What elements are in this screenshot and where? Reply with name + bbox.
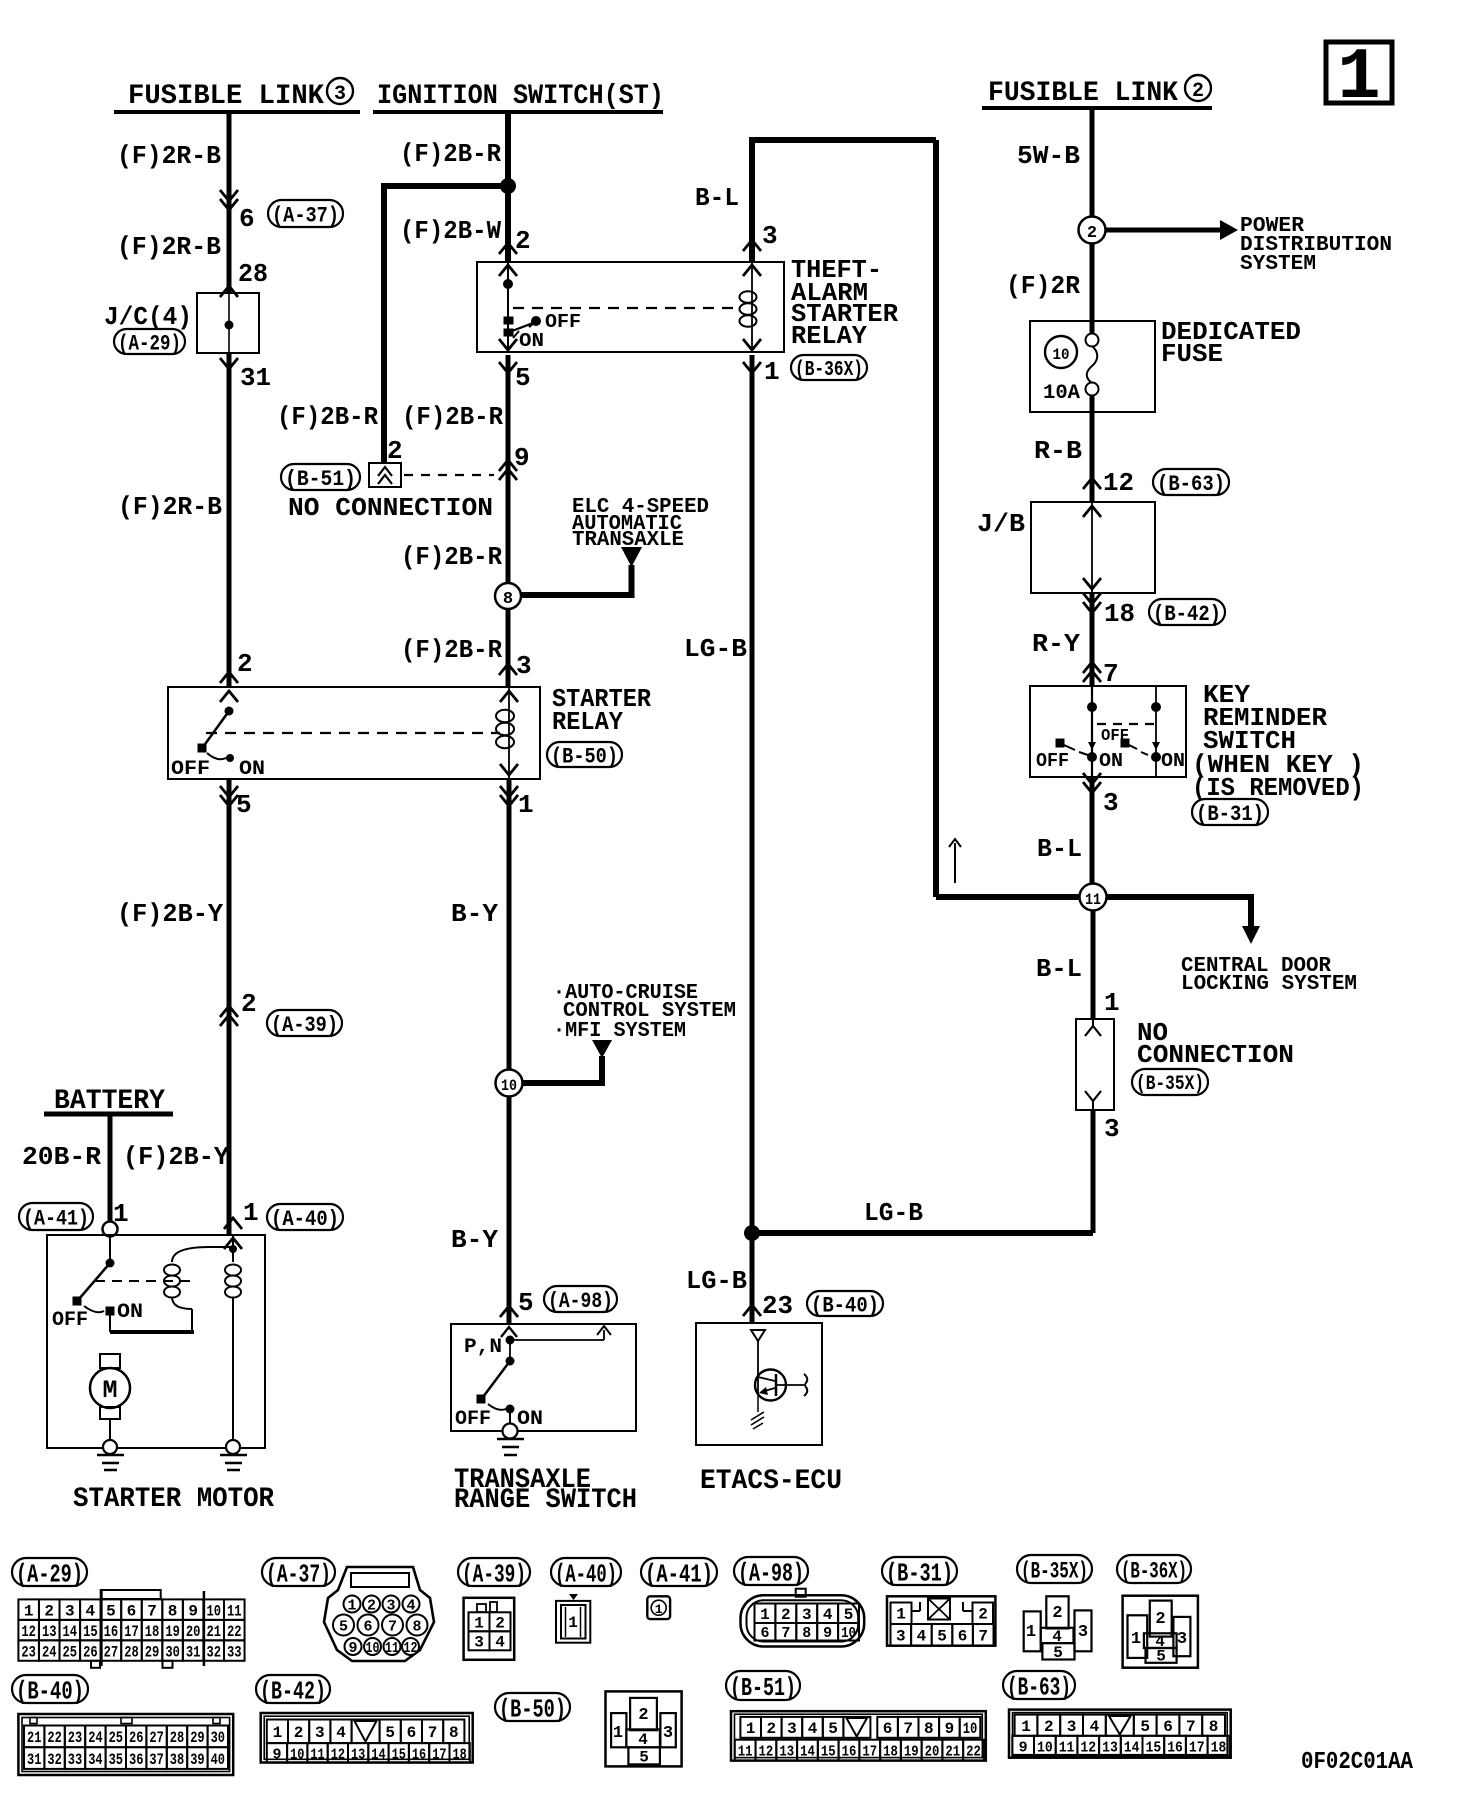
wire LG-B horizontal [752, 1230, 1093, 1236]
svg-text:1: 1 [746, 1720, 756, 1738]
svg-text:17: 17 [1189, 1739, 1205, 1756]
svg-text:(A-29): (A-29) [16, 1559, 83, 1589]
svg-text:25: 25 [63, 1643, 78, 1661]
svg-text:(B-50): (B-50) [551, 744, 618, 769]
svg-text:5: 5 [339, 1619, 348, 1636]
connector A-39 chevrons [220, 1006, 238, 1017]
solenoid top node dot [229, 1245, 237, 1253]
connector A-29 mounting tabs [100, 1591, 103, 1666]
svg-text:9: 9 [272, 1746, 281, 1763]
wire (F)2R [1090, 243, 1095, 334]
svg-text:LG-B: LG-B [864, 1198, 923, 1228]
svg-text:1: 1 [1026, 1623, 1036, 1642]
wire below B-35X [1091, 1110, 1096, 1233]
svg-text:R-B: R-B [1034, 436, 1082, 466]
junction block J/C(4) box [197, 293, 259, 353]
connector ref A-98 [544, 1286, 617, 1312]
contact small marks [504, 317, 513, 324]
switch arm tail [529, 321, 536, 327]
chevron pin 12 [1083, 478, 1101, 489]
svg-text:10: 10 [841, 1625, 856, 1642]
svg-text:12: 12 [404, 1640, 418, 1657]
svg-text:OFF: OFF [171, 758, 210, 781]
svg-text:15: 15 [83, 1623, 98, 1641]
switch arm theft [507, 323, 533, 333]
svg-text:2: 2 [1155, 1610, 1165, 1629]
node dot J/C(4) [225, 321, 234, 330]
svg-text:(B-63): (B-63) [1157, 472, 1225, 497]
svg-text:2: 2 [1044, 1718, 1054, 1736]
svg-text:1: 1 [613, 1724, 623, 1743]
theft relay dashed link [513, 307, 738, 309]
wire node11 horizontal left [936, 894, 1079, 900]
svg-text:1: 1 [568, 1614, 578, 1632]
svg-text:26: 26 [83, 1643, 98, 1661]
chevron inside transaxle box [501, 1327, 517, 1337]
ETACS input triangle [751, 1330, 765, 1341]
svg-text:(F)2R-B: (F)2R-B [118, 492, 222, 522]
junction node dot [500, 178, 516, 194]
wire B-L to node 11 [1090, 777, 1095, 884]
svg-text:25: 25 [109, 1729, 123, 1747]
svg-text:10: 10 [206, 1602, 221, 1620]
svg-text:36: 36 [129, 1751, 143, 1769]
svg-text:1: 1 [896, 1606, 906, 1624]
svg-text:ON: ON [239, 758, 265, 781]
svg-text:18: 18 [1104, 599, 1135, 629]
svg-text:5: 5 [828, 1720, 838, 1738]
ground symbol right [220, 1454, 247, 1457]
wire ignition vertical [505, 186, 511, 261]
motor switch feed [109, 1236, 111, 1263]
connector ref B-51 (pinout) [726, 1671, 800, 1700]
starter motor box [47, 1235, 265, 1448]
svg-text:B-L: B-L [1036, 954, 1082, 984]
chevron inside J/B top [1083, 506, 1101, 517]
svg-text:27: 27 [104, 1643, 119, 1661]
chevron below theft relay right [743, 362, 761, 373]
svg-text:4: 4 [86, 1602, 96, 1620]
wire long vertical to node 11 [933, 140, 939, 897]
svg-text:24: 24 [42, 1643, 57, 1661]
svg-text:7: 7 [978, 1628, 988, 1646]
relay dashed link [206, 732, 500, 734]
svg-text:35: 35 [109, 1751, 123, 1769]
arrow to power distribution [1106, 228, 1222, 233]
svg-text:(A-41): (A-41) [23, 1206, 89, 1231]
svg-text:39: 39 [190, 1751, 204, 1769]
arrow to ELC system [621, 547, 642, 567]
ground terminal left [103, 1440, 117, 1454]
ETACS transistor output [776, 1384, 806, 1386]
svg-text:LOCKING SYSTEM: LOCKING SYSTEM [1181, 973, 1357, 996]
svg-text:21: 21 [945, 1744, 960, 1761]
NC chevron top [1085, 1026, 1101, 1036]
svg-text:2: 2 [367, 1598, 376, 1615]
dedicated fuse box [1030, 321, 1155, 412]
svg-text:ETACS-ECU: ETACS-ECU [700, 1466, 842, 1497]
chevron into starter relay right [499, 664, 517, 675]
connector B-63 body [1009, 1710, 1231, 1758]
fuse element [1087, 346, 1098, 383]
connector ref B-50 [547, 742, 622, 767]
chevrons pin 3 [1083, 782, 1101, 793]
svg-text:34: 34 [88, 1751, 103, 1769]
wire B-Y vertical [507, 779, 512, 1070]
NC chevron bottom [1085, 1091, 1101, 1101]
connector ref B-35X (pinout) [1017, 1555, 1092, 1583]
switch tick [513, 331, 519, 338]
svg-text:3: 3 [896, 1628, 906, 1646]
switch pivot dot [506, 1357, 515, 1366]
svg-text:FUSE: FUSE [1161, 339, 1223, 369]
wire switch to motor [109, 1315, 111, 1332]
wire inside key switch [1091, 686, 1093, 777]
connector B-50 body [606, 1691, 682, 1766]
svg-text:31: 31 [240, 363, 271, 393]
svg-text:31: 31 [186, 1643, 201, 1661]
svg-text:37: 37 [149, 1751, 163, 1769]
svg-text:28: 28 [124, 1643, 139, 1661]
chevrons below relay left [220, 795, 238, 806]
switch throw arc [84, 1306, 104, 1312]
connector ref A-41 [19, 1203, 93, 1230]
connector ref B-42 (pinout) [256, 1675, 330, 1703]
connector B-40 row2 [24, 1747, 44, 1769]
svg-text:5: 5 [385, 1724, 395, 1742]
svg-text:12: 12 [1080, 1739, 1096, 1756]
svg-text:(F)2R-B: (F)2R-B [117, 141, 221, 171]
svg-text:10: 10 [1037, 1739, 1053, 1756]
svg-text:22: 22 [47, 1729, 61, 1747]
svg-text:30: 30 [211, 1729, 225, 1747]
svg-text:(F)2B-Y: (F)2B-Y [123, 1142, 229, 1172]
chevrons below relay right [500, 795, 518, 806]
svg-text:8: 8 [1209, 1718, 1219, 1736]
svg-text:B-Y: B-Y [451, 1225, 498, 1255]
svg-text:23: 23 [21, 1643, 36, 1661]
svg-text:1: 1 [518, 790, 534, 820]
arrow to central door locking [1242, 926, 1260, 944]
svg-text:3: 3 [762, 221, 778, 251]
svg-text:18: 18 [1211, 1739, 1227, 1756]
svg-text:NO CONNECTION: NO CONNECTION [288, 493, 493, 523]
wire ignition mid [506, 355, 511, 584]
chevron inside theft relay left [499, 265, 517, 276]
svg-text:(F)2R-B: (F)2R-B [117, 232, 221, 262]
connector A-37 pass-through chevrons [220, 199, 238, 210]
connector ref A-29 [114, 329, 185, 354]
svg-text:4: 4 [917, 1628, 927, 1646]
svg-text:8: 8 [449, 1724, 459, 1742]
svg-text:11: 11 [738, 1744, 753, 1761]
svg-text:2: 2 [387, 436, 403, 466]
switch arm left [1056, 739, 1064, 747]
svg-text:(B-31): (B-31) [1196, 802, 1264, 827]
svg-text:2: 2 [638, 1706, 648, 1725]
svg-text:12: 12 [331, 1746, 345, 1763]
svg-text:1: 1 [1131, 1630, 1141, 1649]
svg-text:12: 12 [759, 1744, 774, 1761]
chevron inside box A-40 [224, 1238, 242, 1249]
ETACS transistor base bar [775, 1374, 778, 1396]
chevrons pin 9 [499, 460, 517, 471]
svg-text:1: 1 [1104, 988, 1120, 1018]
switch throw arc [207, 753, 226, 759]
wire B-Y lower [507, 1096, 512, 1324]
chevron inside theft relay right bottom [743, 339, 761, 350]
arrow onto left contact [1088, 742, 1096, 750]
svg-text:(B-51): (B-51) [730, 1673, 796, 1703]
svg-text:5: 5 [1140, 1718, 1150, 1736]
svg-text:LG-B: LG-B [684, 634, 747, 664]
connector ref B-31 [1192, 799, 1268, 825]
connector ref A-37 [268, 200, 343, 227]
theft relay coil [740, 291, 757, 303]
svg-text:(A-98): (A-98) [738, 1558, 804, 1588]
svg-text:6: 6 [127, 1602, 137, 1620]
svg-text:13: 13 [42, 1623, 57, 1641]
svg-text:8: 8 [802, 1625, 811, 1642]
chevron into transaxle switch [500, 1306, 518, 1317]
svg-text:(F)2B-R: (F)2B-R [401, 542, 502, 572]
svg-text:6: 6 [407, 1724, 417, 1742]
connector ref A-37 (pinout) [262, 1558, 335, 1586]
wire R-B [1090, 395, 1095, 502]
connector ref A-39 [267, 1010, 342, 1036]
svg-text:2: 2 [241, 989, 257, 1019]
svg-text:21: 21 [27, 1729, 41, 1747]
svg-text:20B-R: 20B-R [22, 1142, 101, 1172]
svg-text:23: 23 [68, 1729, 82, 1747]
svg-text:BATTERY: BATTERY [54, 1086, 165, 1117]
svg-text:1: 1 [347, 1598, 356, 1615]
svg-text:11: 11 [310, 1746, 324, 1763]
svg-text:B-Y: B-Y [451, 899, 498, 929]
arrow onto right contact [1152, 742, 1160, 750]
connector ref B-40 (pinout) [12, 1675, 88, 1703]
wire node11 horizontal right [1107, 894, 1251, 900]
svg-text:7: 7 [147, 1602, 157, 1620]
connector A-37 pins [344, 1596, 361, 1613]
svg-text:10A: 10A [1043, 382, 1080, 405]
junction block J/B box [1031, 502, 1155, 593]
svg-text:6: 6 [958, 1628, 968, 1646]
chevron inside relay top-left [220, 691, 238, 702]
svg-text:RANGE SWITCH: RANGE SWITCH [454, 1485, 637, 1516]
svg-text:3: 3 [65, 1602, 75, 1620]
ETACS input wire [757, 1341, 759, 1393]
svg-text:14: 14 [63, 1623, 78, 1641]
svg-text:ON: ON [117, 1301, 143, 1324]
svg-text:ON: ON [519, 330, 544, 352]
chevron below theft relay left [499, 362, 517, 373]
switch arm dot [531, 316, 541, 326]
svg-text:(B-51): (B-51) [285, 467, 356, 492]
svg-text:4: 4 [336, 1724, 346, 1742]
svg-text:4: 4 [406, 1598, 415, 1615]
svg-text:15: 15 [392, 1746, 406, 1763]
svg-text:28: 28 [170, 1729, 184, 1747]
svg-text:4: 4 [1090, 1718, 1100, 1736]
svg-text:9: 9 [514, 443, 530, 473]
svg-text:B-L: B-L [695, 183, 739, 213]
wire R-Y [1090, 593, 1095, 685]
svg-text:(A-39): (A-39) [271, 1013, 338, 1038]
svg-text:2: 2 [1087, 224, 1097, 243]
wire 5W-B [1090, 108, 1095, 217]
svg-text:(B-36X): (B-36X) [1121, 1558, 1187, 1584]
svg-text:2: 2 [515, 226, 531, 256]
switch ON contact dot [506, 1405, 515, 1414]
svg-text:24: 24 [88, 1729, 103, 1747]
svg-text:3: 3 [1104, 1114, 1120, 1144]
svg-text:(F)2B-R: (F)2B-R [402, 402, 503, 432]
terminal circle A-41 [103, 1222, 118, 1237]
node circle 2 [1079, 217, 1106, 244]
svg-text:5: 5 [1053, 1644, 1063, 1662]
svg-text:11: 11 [1085, 891, 1101, 909]
svg-text:1: 1 [474, 1615, 484, 1633]
svg-text:11: 11 [385, 1640, 399, 1657]
svg-text:(B-31): (B-31) [886, 1558, 953, 1588]
no-connection connector B-51 symbol [369, 463, 401, 487]
svg-text:1: 1 [1337, 37, 1380, 119]
connector B-42 body [261, 1713, 473, 1763]
connector A-29 grid row3 [18, 1640, 39, 1660]
svg-text:1: 1 [760, 1606, 770, 1624]
switch OFF contact [198, 744, 206, 752]
svg-text:20: 20 [925, 1744, 940, 1761]
connector B-42 row1 [267, 1720, 288, 1744]
switch OFF contact [477, 1395, 485, 1403]
svg-text:10: 10 [366, 1640, 380, 1657]
svg-text:3: 3 [516, 651, 532, 681]
svg-text:13: 13 [779, 1744, 794, 1761]
svg-text:15: 15 [1146, 1739, 1162, 1756]
svg-text:12: 12 [1103, 468, 1134, 498]
svg-text:21: 21 [206, 1623, 221, 1641]
switch arm [79, 1263, 110, 1299]
contact dot right pole [1151, 752, 1161, 762]
connector ref B-36X [791, 355, 867, 380]
svg-text:30: 30 [165, 1643, 180, 1661]
chevron out of J/C [220, 358, 238, 369]
svg-text:1: 1 [24, 1602, 34, 1620]
svg-text:0F02C01AA: 0F02C01AA [1301, 1749, 1414, 1776]
svg-text:16: 16 [1167, 1739, 1183, 1756]
wire BATTERY bus [44, 1112, 173, 1117]
motor to ground wire [109, 1419, 111, 1441]
svg-text:3: 3 [802, 1606, 812, 1624]
connector ref B-50 (pinout) [495, 1693, 570, 1721]
connector ref B-63 (pinout) [1003, 1671, 1075, 1699]
svg-text:8: 8 [168, 1602, 178, 1620]
chevron inside J/B bottom [1083, 578, 1101, 589]
switch throw arc [488, 1404, 506, 1410]
svg-text:5: 5 [515, 363, 531, 393]
node circle 11 [1080, 884, 1107, 911]
svg-text:18: 18 [453, 1746, 467, 1763]
connector B-35X cells [1046, 1596, 1068, 1628]
svg-text:R-Y: R-Y [1032, 629, 1080, 659]
dashed link to solenoid [95, 1280, 194, 1282]
chevrons pin 7 [1083, 662, 1101, 673]
connector A-39 cells [469, 1612, 490, 1631]
arrow to MFI system [592, 1040, 612, 1058]
svg-text:1: 1 [764, 357, 780, 387]
connector B-40 body [18, 1714, 233, 1775]
wire: FUSIBLE LINK 2 feed bus [982, 106, 1212, 110]
svg-text:·MFI SYSTEM: ·MFI SYSTEM [553, 1020, 686, 1043]
connector A-37 body [324, 1567, 434, 1661]
connector ref B-51 [281, 464, 360, 490]
svg-text:9: 9 [348, 1640, 357, 1657]
svg-text:3: 3 [386, 1598, 395, 1615]
svg-text:20: 20 [186, 1623, 201, 1641]
svg-text:1: 1 [655, 1602, 663, 1617]
svg-text:17: 17 [862, 1744, 877, 1761]
svg-text:10: 10 [501, 1077, 517, 1095]
svg-text:9: 9 [188, 1602, 198, 1620]
connector A-98 cells [755, 1604, 776, 1624]
node circle 8 [495, 583, 521, 609]
ETACS-ECU box [696, 1323, 822, 1445]
switch to ground wire [509, 1413, 511, 1425]
svg-text:3: 3 [1177, 1630, 1187, 1649]
svg-text:16: 16 [412, 1746, 426, 1763]
svg-text:5: 5 [844, 1606, 854, 1624]
chevron into theft relay [499, 243, 517, 254]
solenoid top link [207, 1246, 233, 1248]
key reminder switch box [1030, 686, 1186, 777]
switch pivot dot [225, 707, 234, 716]
svg-text:12: 12 [21, 1623, 36, 1641]
wire LG-B vertical [750, 355, 755, 1322]
wire B-L vertical [749, 137, 755, 261]
svg-text:5: 5 [236, 790, 252, 820]
chevron inside relay bottom-right [500, 764, 518, 775]
contact dot top right [1151, 702, 1161, 712]
no connection connector B-35X [1076, 1019, 1114, 1110]
svg-text:ON: ON [1099, 750, 1123, 772]
wire battery feed 20B-R [108, 1114, 113, 1222]
svg-text:3: 3 [1067, 1718, 1077, 1736]
svg-text:2: 2 [237, 649, 253, 679]
relay coil wire [508, 687, 510, 779]
contact dot left pole [1087, 752, 1097, 762]
chevrons pin 18 [1083, 602, 1101, 613]
svg-text:15: 15 [821, 1744, 836, 1761]
chevron into starter relay [220, 672, 238, 683]
svg-text:2: 2 [766, 1720, 776, 1738]
connector B-40 row1 [24, 1726, 44, 1748]
svg-text:(B-63): (B-63) [1007, 1672, 1071, 1702]
contact dot [503, 279, 513, 289]
svg-text:22: 22 [966, 1744, 981, 1761]
P-N arrowhead [597, 1326, 611, 1335]
connector ref A-40 (pinout) [551, 1558, 621, 1586]
svg-text:3: 3 [334, 83, 346, 106]
svg-text:CONNECTION: CONNECTION [1137, 1040, 1294, 1070]
connector ref A-29 (pinout) [12, 1558, 87, 1586]
wire ignition vertical top [505, 112, 511, 186]
svg-text:7: 7 [1186, 1718, 1196, 1736]
svg-text:7: 7 [428, 1724, 438, 1742]
svg-text:(F)2B-R: (F)2B-R [400, 139, 501, 169]
ground symbol [497, 1438, 524, 1441]
svg-text:18: 18 [883, 1744, 898, 1761]
